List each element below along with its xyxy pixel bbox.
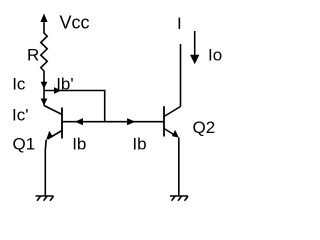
svg-text:Ic: Ic bbox=[12, 75, 26, 94]
Q1 emitter wire to ground bbox=[44, 140, 47, 196]
Q1 collector lead bbox=[44, 106, 62, 115]
svg-text:I: I bbox=[177, 14, 182, 33]
Ic current arrowhead bbox=[41, 82, 48, 89]
Q2 emitter lead with arrow bbox=[164, 129, 177, 137]
svg-text:Io: Io bbox=[208, 45, 222, 64]
svg-text:Q2: Q2 bbox=[193, 118, 216, 137]
Vcc supply arrow bbox=[40, 14, 47, 34]
svg-text:Q1: Q1 bbox=[13, 135, 36, 154]
wire R bottom to Q1 collector node bbox=[43, 71, 45, 106]
ground (right) bbox=[170, 196, 188, 201]
svg-text:Ib: Ib bbox=[72, 135, 86, 154]
Ib' current arrowhead bbox=[54, 87, 61, 94]
Q2 collector lead bbox=[164, 107, 181, 117]
Ic' current arrowhead bbox=[41, 99, 48, 106]
svg-text:Ib': Ib' bbox=[56, 74, 73, 93]
svg-text:Vcc: Vcc bbox=[60, 12, 90, 32]
svg-text:R: R bbox=[27, 46, 39, 65]
resistor R bbox=[41, 33, 47, 71]
base wire Q1 to Q2 bbox=[62, 121, 164, 123]
wire output top to Q2 collector bbox=[180, 44, 182, 107]
transistor Q1 base bar bbox=[61, 108, 63, 139]
Io current arrow bbox=[190, 31, 199, 64]
Ib arrowhead into Q2 base bbox=[127, 118, 135, 125]
ground (left) bbox=[36, 196, 54, 201]
svg-text:Ic': Ic' bbox=[12, 105, 28, 124]
svg-text:Ib: Ib bbox=[132, 135, 146, 154]
wire base feedback branch (node to bases) bbox=[44, 91, 105, 122]
Ib arrowhead into Q1 base bbox=[75, 118, 83, 125]
transistor Q2 base bar bbox=[163, 106, 165, 136]
Q1 emitter lead with arrow bbox=[48, 131, 63, 140]
Q2 emitter wire to ground bbox=[178, 138, 180, 196]
